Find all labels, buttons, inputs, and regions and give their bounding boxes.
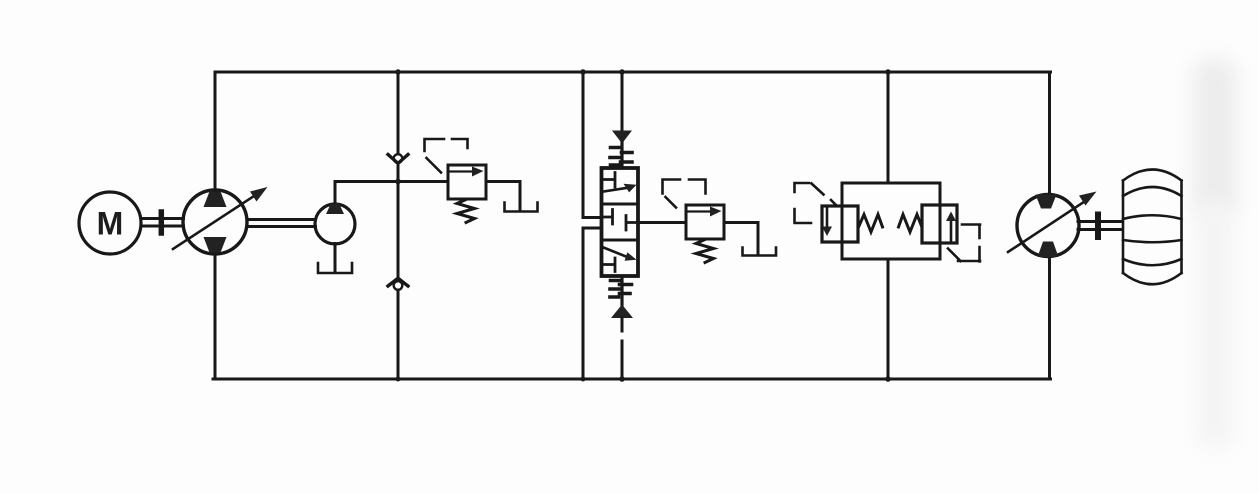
relief valve RV1 spring <box>457 200 475 223</box>
motor M2 bottom flow triangle (inward) <box>1038 242 1059 258</box>
motor M2 variable arrow shaft <box>1008 203 1083 253</box>
CB2 internal arrow (up) <box>950 221 953 242</box>
pump P1 top flow triangle <box>204 192 227 208</box>
DV1 top cell blocked port T <box>603 173 615 188</box>
counterbalance valve CB1 body <box>822 206 858 242</box>
winch drum left side <box>1122 181 1125 274</box>
relief valve RV2 internal arrow <box>688 210 710 212</box>
junction dot bottom rail / check branch <box>396 377 401 382</box>
winch drum winding arc 3 <box>1123 240 1182 242</box>
shaft pump P1 to charge pump P2 (double line) <box>247 220 316 227</box>
DV1 cell divider lower <box>602 239 639 242</box>
relief valve RV1 body <box>448 165 486 199</box>
electric motor M1 circle <box>79 192 141 254</box>
tank symbol for RV2 <box>743 248 777 256</box>
winch drum winding arc 4 <box>1123 259 1182 265</box>
CB1 internal arrow (down) <box>826 208 829 228</box>
counterbalance valve CB2 body <box>922 205 957 243</box>
wire check-valve branch vertical <box>397 72 400 379</box>
DV1 top cell arrow <box>604 188 627 192</box>
winch drum right side <box>1180 181 1183 274</box>
shaft motor M1 to pump P1 (double line) <box>141 219 184 227</box>
DV1 top pilot arrow <box>612 131 632 144</box>
pump P1 variable arrow shaft <box>173 196 254 249</box>
brake loop bottom edge <box>842 258 940 261</box>
winch drum bottom arc <box>1123 273 1182 284</box>
DV1 top spring <box>620 142 623 168</box>
DV1 bottom cell arrow <box>604 248 627 257</box>
wire T-line from valve DV1 to bottom rail <box>583 228 602 379</box>
shaft motor M2 to drum (double line) <box>1078 222 1122 230</box>
DV1 bottom cell blocked port T <box>603 258 615 272</box>
wire right edge below motor M2 <box>1048 256 1051 379</box>
check valve CV1 ball <box>394 154 403 163</box>
junction dot top rail / check branch <box>395 69 401 75</box>
DV1 bottom pilot arrow <box>611 305 633 319</box>
CB2 spring <box>899 215 922 233</box>
wire DV1 right port to relief RV2 <box>638 221 686 224</box>
CB2 pilot dashes <box>948 225 980 262</box>
junction dot top rail / brake feed <box>885 69 891 75</box>
wire DV1 bottom pilot dashed to bottom rail <box>621 318 624 379</box>
wire left edge below pump P1 <box>214 254 217 379</box>
CB1 spring <box>859 215 883 233</box>
DV1 bottom spring <box>620 277 623 305</box>
wire top rail <box>215 71 1051 74</box>
brake loop right edge through CB2 <box>939 183 942 259</box>
wire RV1 outlet <box>486 182 520 212</box>
check valve CV1 seat <box>388 155 408 163</box>
winch drum winding arc 1 <box>1123 187 1182 196</box>
CB1 pilot dashes <box>795 183 837 223</box>
winch drum top arc <box>1123 170 1182 181</box>
wire charge-pump outlet riser <box>334 182 337 205</box>
relief valve RV2 pilot dashes <box>663 180 706 208</box>
pump P1 variable displacement circle <box>183 190 247 254</box>
DV1 middle cell blocked right port <box>626 216 638 231</box>
wire bottom rail <box>213 378 1051 381</box>
pump P1 variable arrow head <box>250 187 268 202</box>
coupling on M2-drum shaft <box>1095 215 1101 238</box>
wire RV2 outlet <box>724 223 758 255</box>
wire P-line from top rail to valve DV1 <box>583 72 602 218</box>
DV1 middle cell blocked left port <box>602 210 613 225</box>
relief valve RV1 internal arrow <box>450 170 472 172</box>
junction dot top rail / P-line <box>580 69 586 75</box>
coupling on M1-P1 shaft <box>159 212 165 233</box>
junction dot bottom rail / DV1 pilot <box>619 376 625 382</box>
relief valve RV1 pilot dashes <box>425 139 468 173</box>
scan shadow band right side <box>1192 58 1238 218</box>
relief valve RV2 body <box>686 205 724 239</box>
junction dot charge line cross <box>395 179 401 185</box>
junction dot bottom rail / T-line <box>581 377 586 382</box>
brake loop left edge through CB1 <box>841 183 844 259</box>
svg-text:M: M <box>97 206 124 242</box>
junction dot bottom rail / brake feed <box>885 376 891 382</box>
check valve CV2 ball <box>394 281 403 290</box>
motor M2 variable arrow head <box>1079 192 1097 206</box>
tank symbol under pump P2 <box>318 263 352 273</box>
wire right edge above motor M2 <box>1048 72 1051 195</box>
wire charge pump P2 drain <box>334 244 337 272</box>
winch drum winding arc 2 <box>1123 215 1182 219</box>
motor M2 top flow triangle (inward) <box>1036 195 1057 209</box>
pump P1 bottom flow triangle <box>204 237 227 253</box>
wire charge line to relief valve RV1 <box>335 180 448 183</box>
junction dot top rail / pilot feed <box>619 69 625 75</box>
directional valve DV1 body <box>602 168 639 276</box>
check valve CV2 seat <box>388 279 408 286</box>
wire left edge above pump P1 <box>214 72 217 191</box>
wire brake-loop bottom feed <box>887 259 890 379</box>
brake loop top edge <box>842 182 940 185</box>
motor M2 variable displacement circle <box>1017 195 1079 257</box>
relief valve RV2 spring <box>696 240 714 263</box>
charge pump P2 flow triangle <box>326 204 344 215</box>
charge pump P2 circle <box>315 204 355 244</box>
DV1 cell divider upper <box>602 203 639 206</box>
wire pilot feed to DV1 top <box>621 72 624 131</box>
tank symbol for RV1 <box>505 203 538 212</box>
wire brake-loop top feed <box>887 72 890 183</box>
